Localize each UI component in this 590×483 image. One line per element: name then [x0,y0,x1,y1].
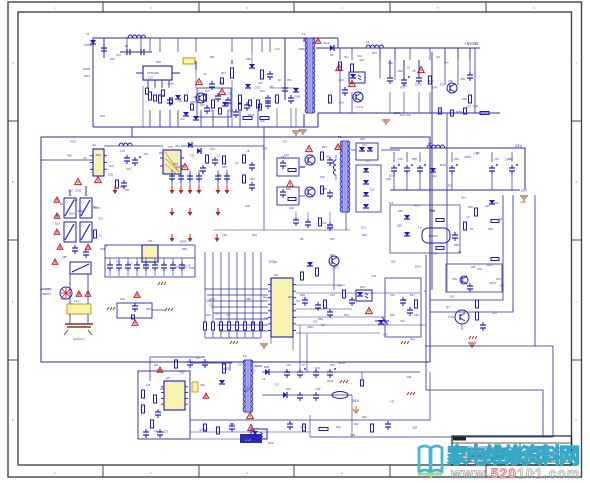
svg-text:R64: R64 [454,157,459,161]
svg-text:R8: R8 [300,237,304,241]
svg-text:D15: D15 [496,278,501,281]
svg-text:R79: R79 [252,233,257,237]
svg-text:C24: C24 [238,363,243,366]
svg-text:R65: R65 [246,57,251,61]
svg-text:1 2: 1 2 [245,437,251,442]
svg-text:ZD18: ZD18 [415,266,422,269]
svg-text:R88: R88 [160,387,165,391]
svg-text:D26: D26 [125,189,130,192]
svg-text:C60: C60 [222,233,227,237]
svg-text:R58: R58 [67,154,72,157]
svg-text:Q13: Q13 [116,54,121,57]
svg-text:D25: D25 [226,367,231,370]
svg-text:D24: D24 [221,72,226,75]
svg-text:ZD50: ZD50 [78,210,85,213]
svg-text:+5VSB: +5VSB [464,41,478,46]
svg-text:ZD20: ZD20 [389,175,396,178]
svg-text:PC3: PC3 [268,441,274,445]
svg-text:ZD16: ZD16 [327,225,334,228]
svg-text:C44: C44 [264,317,269,320]
svg-text:R63: R63 [300,293,305,297]
svg-text:www.520101.com: www.520101.com [450,466,579,481]
svg-text:ZD58: ZD58 [456,111,463,114]
svg-text:R18: R18 [462,97,467,101]
svg-text:D10: D10 [339,101,344,104]
svg-text:A: A [575,61,577,65]
svg-text:Q26: Q26 [206,300,211,303]
svg-text:C11: C11 [154,430,159,433]
svg-text:R59: R59 [209,109,214,112]
svg-text:R10: R10 [55,215,60,218]
svg-text:R41: R41 [322,145,327,149]
svg-text:R59: R59 [360,137,365,141]
svg-text:D44: D44 [432,87,437,90]
svg-text:ZD54: ZD54 [168,83,175,86]
svg-text:R73: R73 [372,51,377,55]
svg-text:R12: R12 [260,89,265,93]
svg-text:C53: C53 [287,79,292,82]
svg-text:ZD13: ZD13 [415,83,422,86]
svg-text:10K: 10K [226,313,231,317]
svg-text:R9: R9 [330,53,334,57]
svg-text:ZD57: ZD57 [394,112,401,115]
svg-text:D10: D10 [219,82,224,85]
svg-text:24V: 24V [352,398,359,403]
svg-text:C80: C80 [452,277,457,281]
svg-text:10K: 10K [398,157,403,161]
svg-text:INPUT: INPUT [42,292,51,296]
svg-text:10K: 10K [116,259,121,263]
svg-text:R72: R72 [366,159,371,163]
svg-text:C47: C47 [383,333,388,336]
svg-text:D17: D17 [275,384,280,387]
svg-text:Q7: Q7 [446,305,450,309]
svg-text:ZD53: ZD53 [248,114,255,117]
svg-text:R19: R19 [344,313,349,317]
svg-text:C44: C44 [433,253,438,256]
svg-text:C32: C32 [209,304,214,307]
svg-text:ZD2: ZD2 [440,84,445,87]
svg-text:Q21: Q21 [438,110,443,113]
svg-text:12V: 12V [338,360,345,365]
svg-text:B: B [575,180,577,184]
svg-text:R41: R41 [288,296,293,299]
svg-text:D15: D15 [450,295,455,298]
svg-text:D30: D30 [313,320,318,323]
svg-text:ZD32: ZD32 [75,190,82,193]
svg-text:D22: D22 [283,140,288,143]
svg-text:R73: R73 [330,363,335,367]
svg-text:R89: R89 [454,243,459,247]
svg-text:D51: D51 [286,371,291,374]
svg-text:ZD16: ZD16 [490,282,497,285]
svg-text:TL431: TL431 [355,105,364,109]
svg-text:ZD58: ZD58 [299,48,306,51]
svg-text:ZD55: ZD55 [465,156,472,159]
svg-text:ZD13: ZD13 [308,326,315,329]
svg-text:D28: D28 [407,376,412,379]
svg-text:R20: R20 [110,57,115,61]
svg-text:R89: R89 [412,157,417,161]
svg-text:D55: D55 [243,390,248,393]
svg-text:R64: R64 [398,209,403,213]
svg-text:U3: U3 [274,273,278,277]
svg-text:C23: C23 [269,85,274,88]
svg-text:ZD25: ZD25 [93,207,100,210]
svg-text:R13: R13 [286,387,291,391]
svg-text:R32: R32 [330,254,335,257]
svg-text:LM324: LM324 [429,234,438,238]
svg-text:D41: D41 [154,364,159,367]
svg-text:R60: R60 [354,423,359,426]
svg-text:T2: T2 [338,135,342,139]
svg-text:Q6: Q6 [499,218,503,221]
svg-text:R48: R48 [263,296,268,299]
svg-text:R37: R37 [330,237,335,241]
svg-text:R53: R53 [415,204,420,207]
svg-text:C52: C52 [227,93,232,96]
svg-text:D29: D29 [289,207,294,210]
svg-text:R7: R7 [125,44,129,48]
svg-text:T1: T1 [302,32,306,36]
svg-text:R11: R11 [403,299,408,302]
svg-text:GND: GND [520,200,526,204]
svg-text:D52: D52 [326,156,331,159]
svg-text:ZD27: ZD27 [70,141,77,144]
svg-text:CN1: CN1 [84,74,90,78]
svg-text:Q40: Q40 [444,61,449,64]
svg-text:ZD20: ZD20 [486,264,493,267]
svg-text:D28: D28 [245,205,250,208]
svg-text:C33: C33 [300,425,305,429]
svg-text:R3: R3 [470,227,474,231]
svg-text:10K: 10K [146,383,151,387]
svg-text:C72: C72 [120,149,125,153]
svg-text:Q28: Q28 [203,429,208,432]
svg-text:R17: R17 [493,312,498,315]
svg-text:R71: R71 [344,55,349,59]
svg-text:C32: C32 [477,268,482,271]
svg-text:R12: R12 [180,371,185,374]
svg-text:C11: C11 [362,144,367,147]
svg-text:D50: D50 [391,260,396,263]
svg-text:R45: R45 [160,95,165,98]
svg-text:D42: D42 [500,285,505,288]
svg-text:Q10: Q10 [175,266,180,269]
svg-text:R54: R54 [222,165,227,169]
svg-text:C13: C13 [210,147,215,151]
svg-text:Q45: Q45 [485,205,490,208]
svg-text:C45: C45 [258,82,263,85]
svg-text:L3: L3 [428,141,432,145]
svg-text:Q35: Q35 [386,178,391,181]
svg-text:R18: R18 [173,163,178,166]
svg-text:D52: D52 [100,115,105,118]
svg-text:R30: R30 [146,307,151,311]
svg-text:C47: C47 [390,400,395,403]
svg-text:FUSE: FUSE [84,43,92,47]
svg-text:D32: D32 [315,367,320,370]
svg-text:ZD5: ZD5 [108,174,113,177]
svg-text:Q59: Q59 [413,427,418,430]
svg-text:A: A [12,61,14,65]
svg-text:Q30: Q30 [260,120,265,123]
svg-text:C46: C46 [473,105,478,108]
svg-text:C75: C75 [168,145,173,149]
svg-text:R20: R20 [73,199,78,202]
svg-text:D51: D51 [357,55,362,58]
svg-text:R54: R54 [360,285,365,289]
svg-text:Q42: Q42 [432,175,437,178]
svg-text:C53: C53 [190,155,195,158]
svg-text:C31: C31 [178,100,183,103]
svg-text:R86: R86 [322,187,327,191]
svg-text:10K: 10K [494,201,499,205]
svg-text:R50: R50 [182,247,187,251]
svg-text:C29: C29 [448,79,453,83]
svg-text:D56: D56 [159,152,164,155]
svg-text:R74: R74 [60,202,65,206]
svg-text:10K: 10K [316,387,321,391]
svg-text:ZD9: ZD9 [143,265,148,268]
svg-text:D34: D34 [505,159,510,162]
svg-text:D50: D50 [264,365,270,369]
svg-text:ZD17: ZD17 [333,267,340,270]
svg-text:D30: D30 [440,163,446,167]
svg-text:ZD48: ZD48 [294,95,301,98]
svg-text:C9: C9 [262,377,266,381]
svg-text:C12: C12 [494,157,499,161]
svg-text:D26: D26 [351,434,356,437]
svg-text:D27: D27 [127,168,132,171]
svg-text:D40: D40 [337,285,342,288]
svg-text:ZD14: ZD14 [521,189,528,192]
svg-text:C33: C33 [370,189,375,192]
svg-text:R43: R43 [410,338,415,341]
svg-text:ACIN: ACIN [83,67,90,71]
svg-text:R52: R52 [210,56,215,59]
svg-text:ZD53: ZD53 [193,96,200,99]
svg-text:L2: L2 [366,40,370,44]
svg-text:R52: R52 [176,145,181,148]
svg-text:D13: D13 [361,227,366,230]
svg-text:R44: R44 [250,177,255,181]
svg-text:Q32: Q32 [371,275,376,278]
svg-text:ZD22: ZD22 [254,87,261,90]
svg-text:R43: R43 [339,79,344,82]
svg-text:R19: R19 [96,153,101,157]
svg-text:ZD9: ZD9 [460,78,465,81]
svg-text:LF1: LF1 [74,299,80,303]
svg-text:R7: R7 [302,363,306,367]
svg-text:Q29: Q29 [163,431,168,434]
svg-text:D10: D10 [324,41,330,45]
svg-text:C32: C32 [400,320,405,323]
svg-text:C27: C27 [466,105,471,108]
svg-text:T3: T3 [243,354,247,358]
svg-text:U5: U5 [166,376,170,380]
svg-text:C89: C89 [414,313,419,317]
svg-text:Q46: Q46 [471,266,476,269]
svg-text:R36: R36 [468,205,473,209]
svg-text:C37: C37 [330,293,335,297]
svg-text:D17: D17 [196,357,201,360]
svg-text:R50: R50 [388,62,393,65]
svg-text:10K: 10K [390,293,395,297]
svg-text:C8: C8 [412,69,416,73]
svg-text:家电维修资料网: 家电维修资料网 [447,444,580,468]
svg-text:R69: R69 [156,60,161,64]
svg-text:F1: F1 [86,32,90,36]
svg-text:R59: R59 [229,109,234,112]
svg-text:ZD52: ZD52 [180,241,187,244]
svg-text:AC220V: AC220V [40,287,51,291]
svg-text:Q38: Q38 [397,225,402,228]
svg-text:R21: R21 [230,423,235,426]
svg-text:C52: C52 [200,383,205,387]
svg-text:D12: D12 [99,218,104,221]
svg-text:R29: R29 [398,69,403,73]
svg-text:R17: R17 [410,293,415,297]
svg-text:10K: 10K [336,425,341,429]
svg-text:10K: 10K [320,175,325,179]
svg-text:C54: C54 [60,297,65,301]
svg-text:R48: R48 [430,210,435,213]
svg-text:D17: D17 [200,104,205,107]
svg-text:B: B [12,180,14,184]
svg-text:Q11: Q11 [436,56,441,59]
svg-text:C8: C8 [246,149,250,153]
svg-text:U2: U2 [92,143,96,147]
svg-text:C57: C57 [69,190,74,193]
svg-text:R32: R32 [448,185,453,188]
svg-text:10K: 10K [148,239,153,243]
svg-text:C19: C19 [275,48,280,51]
svg-text:C15: C15 [286,363,291,367]
svg-text:C11: C11 [180,118,185,121]
svg-text:ACPLUG: ACPLUG [73,337,85,341]
svg-text:C13: C13 [148,77,153,80]
svg-text:R25: R25 [110,165,115,168]
svg-text:R62: R62 [318,317,323,321]
svg-text:ZD52: ZD52 [427,80,434,83]
svg-text:R32: R32 [300,165,305,169]
svg-text:C26: C26 [389,202,394,205]
svg-text:R85: R85 [246,297,251,301]
svg-text:Q15: Q15 [359,59,364,62]
svg-text:STR-W6: STR-W6 [147,71,159,75]
svg-text:R43: R43 [321,222,326,225]
svg-text:R27: R27 [362,415,367,419]
svg-text:R44: R44 [390,313,395,317]
svg-text:ZD34: ZD34 [69,212,76,215]
svg-text:D41: D41 [281,156,286,159]
svg-text:ZD43: ZD43 [327,380,334,383]
svg-text:10K: 10K [120,297,125,301]
svg-text:24V: 24V [515,143,522,148]
svg-text:R11: R11 [144,153,149,156]
svg-text:R23: R23 [210,297,215,301]
svg-text:R20 LINK: R20 LINK [400,113,412,117]
svg-text:Q56: Q56 [263,147,268,150]
svg-text:R57: R57 [400,87,405,90]
svg-text:R15: R15 [206,313,211,317]
svg-text:R32: R32 [362,233,367,237]
svg-text:R15: R15 [461,197,466,200]
svg-text:R68: R68 [488,227,493,231]
svg-text:R75: R75 [205,89,210,93]
svg-text:R63: R63 [286,187,291,191]
svg-text:Q17: Q17 [321,324,326,327]
svg-text:ZD29: ZD29 [269,260,276,263]
svg-text:C86: C86 [62,255,67,259]
svg-text:Q18: Q18 [55,223,60,226]
